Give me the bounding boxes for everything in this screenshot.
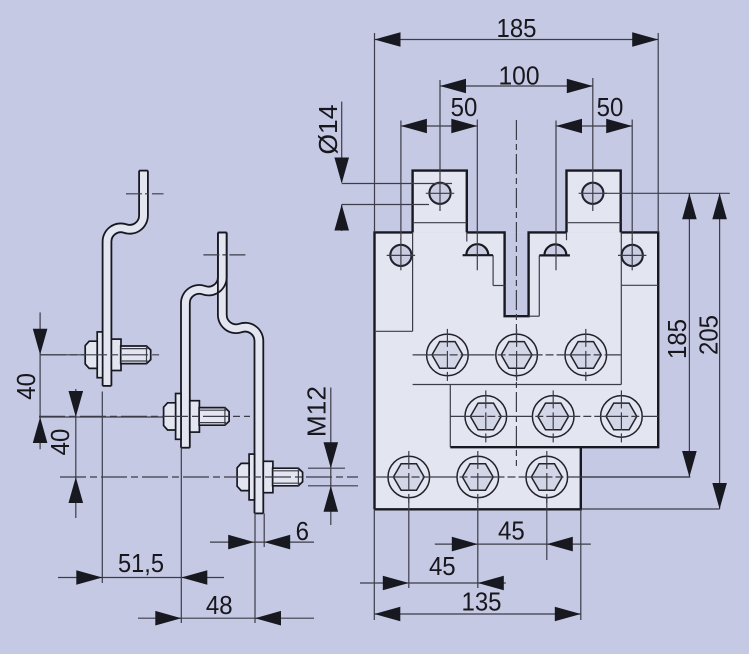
svg-text:51,5: 51,5 <box>118 550 164 578</box>
dimension 40 first (side view) <box>13 312 163 449</box>
bolt row3 left <box>388 451 430 503</box>
internal plate edges thin <box>375 223 659 448</box>
dimension 40 second (side view) <box>47 389 83 518</box>
tab hole C <box>579 183 607 204</box>
svg-text:40: 40 <box>47 429 75 456</box>
svg-text:50: 50 <box>597 94 624 122</box>
bar 3 (bottom row strap) edges <box>227 233 264 514</box>
bar 2 (middle row strap) edges <box>181 233 218 448</box>
flank hole right <box>618 239 646 271</box>
side view bar 1 (top row strap) <box>103 171 164 386</box>
side view bars 2 and 3 <box>181 233 263 514</box>
side bolt 2 (M12) <box>164 394 230 440</box>
bolt row 1 centerline <box>413 354 622 356</box>
side bolt 1 (M12) <box>85 332 151 378</box>
bolt row1 right <box>565 329 607 381</box>
dimension 135 bottom <box>374 509 581 621</box>
dimension 50 right <box>556 94 632 270</box>
dimension 6 (strap thickness) <box>210 513 314 549</box>
bars2/3 top tick centerline <box>203 254 247 256</box>
bar1 top tick centerline <box>126 193 164 195</box>
side bolt centerline row3 <box>60 476 358 478</box>
side bolt centerline row2 <box>39 415 250 417</box>
svg-text:205: 205 <box>696 315 724 355</box>
dimension 45 bottom second <box>360 497 506 590</box>
main view: plate assembly fills <box>375 171 659 510</box>
side bolt 3 (M12) <box>237 454 303 500</box>
bolt row2 right <box>601 390 643 442</box>
side bolt centerline row1 <box>40 354 160 356</box>
svg-text:48: 48 <box>206 592 233 620</box>
bolt row 3 centerline <box>375 476 581 478</box>
bolt row3 right <box>526 451 568 503</box>
bolt row3 middle <box>457 451 499 503</box>
dimension 51,5 <box>58 392 224 585</box>
dimension 100 <box>440 63 593 212</box>
svg-text:45: 45 <box>429 553 456 581</box>
flank hole left <box>387 239 415 271</box>
svg-text:40: 40 <box>13 373 41 400</box>
dimension 48 <box>138 448 314 626</box>
svg-text:135: 135 <box>462 588 502 616</box>
main outline thick <box>375 171 659 510</box>
svg-text:M12: M12 <box>303 386 331 437</box>
tab hole A <box>426 183 454 204</box>
svg-text:6: 6 <box>296 518 309 546</box>
dimension 185 top <box>375 15 659 233</box>
half hole A <box>463 244 493 255</box>
svg-text:Ø14: Ø14 <box>315 105 343 155</box>
dimension 185 right vertical <box>581 193 729 477</box>
bolt row2 left <box>465 390 507 442</box>
svg-text:185: 185 <box>497 15 537 43</box>
dimension dia14 label and leader <box>315 102 452 231</box>
dimension 45 bottom first <box>435 497 591 588</box>
bolt row2 middle <box>532 390 574 442</box>
half hole C <box>539 244 570 255</box>
bolt row1 middle <box>496 329 538 381</box>
dimension M12 (side view) <box>303 386 358 525</box>
svg-text:100: 100 <box>499 63 540 91</box>
svg-text:50: 50 <box>451 94 478 122</box>
svg-text:45: 45 <box>498 517 525 545</box>
svg-text:185: 185 <box>664 319 692 359</box>
bolt row1 left <box>427 329 469 381</box>
dimension 205 right vertical <box>581 193 727 509</box>
dimension 50 left <box>401 94 477 270</box>
centerline main axis <box>515 120 517 466</box>
bolt row 2 centerline <box>450 415 658 417</box>
